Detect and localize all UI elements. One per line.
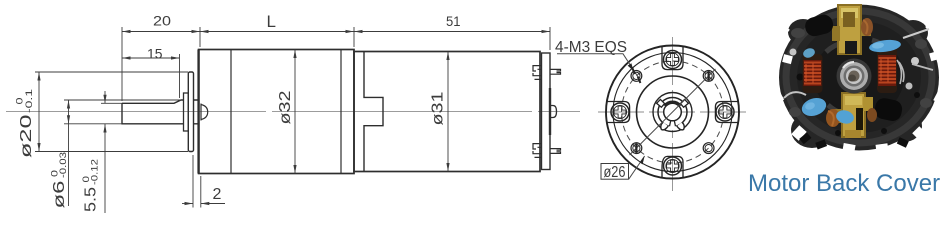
dim 20 extension lines xyxy=(121,27,123,101)
front view centerline horizontal xyxy=(598,111,747,113)
arrows dim 20 xyxy=(122,30,131,33)
4-M3 tick near xyxy=(632,68,635,74)
4-M3 leader underline xyxy=(557,54,641,81)
phi26 box leader arrowhead xyxy=(640,156,645,164)
blue capacitor upper right xyxy=(868,38,901,53)
outer housing circle xyxy=(606,46,739,179)
svg-text:51: 51 xyxy=(446,14,461,29)
housing body xyxy=(779,5,939,151)
shaft hub xyxy=(184,93,189,131)
hub notch edge right xyxy=(674,121,675,127)
4-M3 tick far xyxy=(638,77,641,83)
solder blob right lower xyxy=(906,83,913,90)
M3 hole SE xyxy=(703,143,714,154)
arrows dim 51 xyxy=(354,30,363,33)
hub bottom notch erase xyxy=(668,112,678,130)
dim 2 line left tail xyxy=(182,203,193,205)
text phi6 with tolerance rotated xyxy=(50,152,70,209)
M3 hole SW xyxy=(631,143,642,154)
bearing boss ellipse on gearbox face xyxy=(201,104,208,121)
terminal lug top xyxy=(550,69,561,74)
blue capacitor upper left small xyxy=(802,47,816,60)
shaft (D-cut, 15mm flat) xyxy=(122,100,199,124)
housing rim texture xyxy=(786,11,932,143)
4-M3 leader arrowhead xyxy=(628,63,634,71)
wire right xyxy=(903,29,929,38)
svg-text:ø31: ø31 xyxy=(430,91,447,125)
svg-text:15: 15 xyxy=(147,47,163,62)
dim phi32 line xyxy=(294,50,296,174)
svg-text:ø32: ø32 xyxy=(277,90,294,124)
terminal bracket bottom xyxy=(533,144,542,158)
svg-text:-0.12: -0.12 xyxy=(90,159,101,185)
phi26 box leader xyxy=(629,156,645,179)
dim phi20 line xyxy=(38,72,40,152)
black cylinder top left xyxy=(803,13,835,38)
screw E xyxy=(716,103,734,121)
motor can (ø31) xyxy=(354,52,540,172)
top brush assembly xyxy=(832,4,873,55)
phi26 tick NE xyxy=(707,71,709,81)
dimension texts xyxy=(15,12,461,212)
hub ear right xyxy=(680,99,688,107)
right coil xyxy=(877,47,904,93)
arrows dim 5.5 xyxy=(103,95,106,104)
phi26 diagonal dimension line xyxy=(630,69,716,155)
screw S xyxy=(664,157,682,175)
housing lobe bottom right xyxy=(886,110,922,142)
svg-text:L: L xyxy=(267,12,276,31)
front view centerline vertical xyxy=(672,37,674,191)
screw pocket W xyxy=(607,102,630,123)
dim phi6 line xyxy=(68,100,70,206)
dim 2 extensions xyxy=(192,155,194,208)
dim 51 line xyxy=(354,31,550,33)
svg-text:5.5: 5.5 xyxy=(83,187,100,212)
dim 15 line xyxy=(122,57,180,59)
dim 5.5 line lower xyxy=(104,124,106,213)
solder blob left xyxy=(790,49,797,56)
gearbox face circle xyxy=(637,76,709,148)
molded rib texture xyxy=(826,40,890,114)
svg-text:ø20: ø20 xyxy=(18,114,35,158)
arrows dim 2 xyxy=(185,202,194,205)
phi26 tick SW xyxy=(635,143,637,153)
M3 hole NW xyxy=(631,71,642,82)
gearbox body (ø32) xyxy=(199,50,354,174)
gearbox rear plate line xyxy=(340,50,342,174)
hub foot right xyxy=(677,122,684,130)
motor end cap xyxy=(542,53,551,170)
wire right lower xyxy=(912,64,933,70)
text phi20 with tolerance rotated xyxy=(15,89,36,158)
end cap thick rim xyxy=(549,88,551,135)
svg-text:-0.03: -0.03 xyxy=(58,152,69,178)
screw pocket E xyxy=(715,102,738,123)
hub foot left xyxy=(661,122,668,130)
dim 2 line right tail xyxy=(201,203,225,205)
dim L line xyxy=(200,31,354,33)
arrows dim phi6 xyxy=(67,100,70,109)
housing inner notch shadows xyxy=(797,74,921,150)
dim 5.5 line upper xyxy=(104,91,106,103)
text phi31 rotated xyxy=(430,91,447,125)
dim 20 line xyxy=(122,31,200,33)
bearing xyxy=(837,59,872,94)
housing edge notches xyxy=(770,0,947,154)
centerline main axis xyxy=(6,111,580,113)
arrows dim phi32 xyxy=(293,50,296,59)
text phi32 rotated xyxy=(277,90,294,124)
dim 5.5 extension xyxy=(101,102,122,104)
copper braid bottom right xyxy=(867,108,877,122)
arrowheads xyxy=(37,30,550,205)
flange disc (2mm, ø20) xyxy=(188,72,193,152)
M3 hole NE xyxy=(703,71,714,82)
screw pocket S xyxy=(662,156,683,177)
gearbox internal line 1 xyxy=(230,50,232,174)
dim phi20 extensions xyxy=(35,71,188,73)
svg-text:2: 2 xyxy=(213,186,222,203)
arrows dim phi31 xyxy=(446,52,449,61)
housing lobe bottom left xyxy=(791,112,833,148)
hub notch edge left xyxy=(670,121,671,127)
screw W xyxy=(611,103,629,121)
blue capacitor bottom center xyxy=(835,109,856,126)
arrows dim phi20 xyxy=(37,72,40,81)
housing lobe top left xyxy=(788,19,818,45)
bottom copper braid xyxy=(826,109,840,127)
black cylinder bottom right xyxy=(873,97,904,123)
arrows dim 15 xyxy=(122,56,131,59)
hub ear left xyxy=(657,99,665,107)
svg-text:ø26: ø26 xyxy=(604,164,626,181)
arrows dim L xyxy=(200,30,209,33)
caption xyxy=(748,170,947,198)
inner circle xyxy=(653,93,692,132)
rear bearing boss xyxy=(550,106,557,118)
screw N xyxy=(664,51,682,69)
text 5.5 with tolerance rotated xyxy=(81,159,101,212)
hub shaft circle xyxy=(664,103,682,121)
top copper braid xyxy=(861,18,873,36)
left coil xyxy=(803,54,823,93)
motor front ring with center recess xyxy=(364,52,383,172)
dim 15 right extension xyxy=(179,54,181,98)
gearbox front face thick line xyxy=(197,50,199,174)
svg-text:ø6: ø6 xyxy=(51,180,68,208)
terminal bracket top xyxy=(533,66,542,80)
phi26 label box xyxy=(601,164,629,180)
dim 51 extensions xyxy=(353,27,355,47)
silver wire strands right of coil xyxy=(897,60,904,84)
face ring circle xyxy=(613,53,732,172)
dim phi31 line xyxy=(447,52,449,172)
wire left curved xyxy=(784,92,806,98)
svg-text:20: 20 xyxy=(153,14,171,29)
terminal lug bottom xyxy=(550,149,561,154)
screw pocket N xyxy=(662,47,683,70)
blue capacitor lower left xyxy=(799,95,828,119)
solder blob right xyxy=(911,57,919,65)
bottom brush assembly xyxy=(826,92,873,138)
hub bridge arc xyxy=(664,102,680,106)
housing lobe top right xyxy=(898,20,928,46)
dim phi6 extensions xyxy=(64,99,181,101)
svg-text:-0.1: -0.1 xyxy=(24,89,35,113)
hub outer ring xyxy=(658,98,687,127)
bolt circle dashed xyxy=(622,61,724,163)
